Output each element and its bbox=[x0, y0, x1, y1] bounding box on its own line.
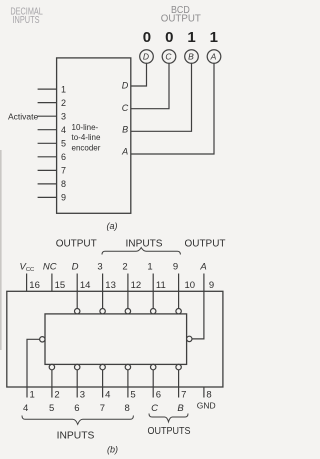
terminal A bbox=[207, 50, 221, 64]
lead pin 15 bbox=[51, 274, 53, 292]
top pin numbers 16-9 bbox=[29, 280, 214, 291]
svg-text:7: 7 bbox=[181, 390, 186, 401]
wire input 7 bbox=[38, 169, 57, 171]
wire C output bbox=[131, 63, 169, 108]
lead pin 16 bbox=[26, 274, 28, 292]
wire input 8 bbox=[38, 183, 57, 185]
pin name labels bbox=[20, 261, 207, 273]
wire A output bbox=[131, 63, 214, 154]
svg-text:1: 1 bbox=[147, 261, 152, 272]
svg-text:NC: NC bbox=[43, 261, 57, 272]
svg-text:1: 1 bbox=[187, 29, 195, 46]
svg-text:1: 1 bbox=[30, 390, 35, 401]
dot pin 6 bbox=[151, 364, 156, 369]
svg-text:2: 2 bbox=[54, 390, 59, 401]
svg-text:5: 5 bbox=[61, 139, 66, 149]
svg-text:4: 4 bbox=[61, 125, 66, 135]
dot pin 5 bbox=[125, 364, 130, 369]
label DECIMAL INPUTS bbox=[10, 7, 43, 27]
wire D output bbox=[131, 63, 147, 86]
package outline rect bbox=[7, 291, 223, 387]
bottom pin leads 2-7 bbox=[52, 370, 204, 398]
svg-text:D: D bbox=[72, 261, 79, 272]
svg-text:2: 2 bbox=[122, 261, 127, 272]
lead pin 9 (A) bbox=[192, 274, 204, 339]
terminal D bbox=[140, 50, 154, 64]
wire input 2 bbox=[38, 102, 57, 104]
svg-text:INPUTS: INPUTS bbox=[57, 430, 95, 442]
svg-text:13: 13 bbox=[105, 280, 116, 291]
lead pin 6 bbox=[152, 370, 154, 398]
lead pin 5 bbox=[127, 370, 129, 398]
svg-text:B: B bbox=[188, 52, 194, 62]
bottom pin numbers 1-8 bbox=[30, 390, 212, 401]
lead pin 7 bbox=[178, 370, 180, 398]
svg-text:3: 3 bbox=[80, 390, 85, 401]
dot pin 9 (right) bbox=[187, 336, 192, 341]
lead pin 1 bbox=[27, 339, 40, 397]
svg-text:10-line-: 10-line- bbox=[72, 123, 99, 132]
svg-text:0: 0 bbox=[143, 29, 151, 46]
wire input 9 bbox=[38, 196, 57, 198]
svg-text:B: B bbox=[122, 125, 128, 135]
svg-text:14: 14 bbox=[80, 280, 91, 291]
dot pin 13 bbox=[100, 309, 105, 314]
svg-text:OUTPUT: OUTPUT bbox=[161, 14, 201, 25]
lead pin 10 bbox=[178, 274, 180, 309]
lead pin 13 bbox=[102, 274, 104, 309]
svg-text:10: 10 bbox=[185, 280, 196, 291]
svg-text:9: 9 bbox=[61, 193, 66, 203]
svg-text:11: 11 bbox=[156, 280, 166, 291]
lead pin 3 bbox=[76, 370, 78, 398]
IC body rect bbox=[45, 314, 187, 365]
bottom function labels bbox=[23, 401, 216, 415]
svg-text:12: 12 bbox=[131, 280, 142, 291]
svg-text:6: 6 bbox=[61, 152, 66, 162]
svg-text:6: 6 bbox=[156, 390, 161, 401]
svg-text:OUTPUTS: OUTPUTS bbox=[148, 425, 191, 437]
svg-text:1: 1 bbox=[61, 84, 66, 94]
input pin labels 1-9 bbox=[61, 84, 66, 202]
svg-text:4: 4 bbox=[23, 403, 28, 414]
svg-text:A: A bbox=[210, 52, 217, 62]
svg-text:C: C bbox=[165, 52, 172, 62]
svg-text:8: 8 bbox=[206, 390, 211, 401]
svg-text:15: 15 bbox=[55, 280, 66, 291]
lead pin 12 bbox=[127, 274, 129, 309]
svg-text:9: 9 bbox=[173, 261, 178, 272]
terminal B bbox=[185, 50, 199, 64]
svg-text:A: A bbox=[199, 261, 206, 272]
output terminal circles D C B A bbox=[140, 50, 221, 64]
brace under inputs 4-8 bbox=[22, 416, 133, 425]
svg-text:C: C bbox=[122, 103, 129, 113]
svg-text:1: 1 bbox=[210, 29, 218, 46]
encoder box U1 bbox=[57, 58, 131, 213]
dot pin 1 (left) bbox=[40, 337, 45, 342]
wire input 6 bbox=[38, 156, 57, 158]
svg-text:0: 0 bbox=[165, 29, 173, 46]
svg-text:9: 9 bbox=[209, 280, 214, 291]
dot pin 4 bbox=[100, 364, 105, 369]
svg-text:to-4-line: to-4-line bbox=[72, 133, 101, 142]
dot pin 3 bbox=[75, 364, 80, 369]
dot pin 14 bbox=[75, 309, 80, 314]
brace over inputs 3 2 1 9 bbox=[102, 248, 180, 255]
svg-text:2: 2 bbox=[61, 98, 66, 108]
svg-text:7: 7 bbox=[100, 403, 105, 414]
output labels D C B A inside box bbox=[121, 81, 129, 157]
label BCD OUTPUT bbox=[161, 5, 201, 25]
scan edge artifact bbox=[0, 150, 2, 350]
dot pin 7 bbox=[176, 364, 181, 369]
wire input 4 bbox=[38, 129, 57, 131]
dot pin 11 bbox=[151, 309, 156, 314]
svg-text:7: 7 bbox=[61, 166, 66, 176]
svg-text:OUTPUT: OUTPUT bbox=[185, 238, 226, 249]
wire input 1 bbox=[38, 88, 57, 90]
svg-text:Activate: Activate bbox=[8, 111, 39, 121]
dot pin 12 bbox=[125, 309, 130, 314]
svg-text:INPUTS: INPUTS bbox=[13, 15, 40, 26]
svg-text:8: 8 bbox=[61, 179, 66, 189]
BCD digits 0 0 1 1 bbox=[143, 29, 218, 46]
input stubs 1-9 bbox=[38, 89, 57, 197]
svg-text:6: 6 bbox=[74, 403, 79, 414]
wire B output bbox=[131, 63, 192, 131]
lead pin 14 bbox=[76, 274, 78, 309]
svg-text:(b): (b) bbox=[107, 444, 118, 454]
svg-text:A: A bbox=[121, 147, 128, 157]
top pin leads bbox=[27, 274, 179, 309]
lead pin 2 bbox=[51, 370, 53, 398]
dot pin 2 bbox=[49, 364, 54, 369]
svg-text:GND: GND bbox=[197, 401, 216, 411]
svg-text:D: D bbox=[122, 81, 129, 91]
svg-text:3: 3 bbox=[97, 261, 102, 272]
wire input 5 bbox=[38, 142, 57, 144]
encoder box text bbox=[72, 123, 101, 153]
brace under outputs C B bbox=[149, 414, 188, 422]
svg-text:INPUTS: INPUTS bbox=[126, 238, 163, 249]
lead pin 4 bbox=[102, 370, 104, 398]
svg-text:3: 3 bbox=[61, 111, 66, 121]
svg-text:8: 8 bbox=[125, 403, 130, 414]
lead pin 11 bbox=[152, 274, 154, 309]
terminal C bbox=[162, 50, 176, 64]
svg-text:4: 4 bbox=[105, 390, 110, 401]
svg-text:5: 5 bbox=[130, 390, 135, 401]
svg-text:5: 5 bbox=[49, 403, 54, 414]
svg-text:B: B bbox=[177, 403, 184, 414]
svg-text:D: D bbox=[143, 52, 149, 62]
svg-text:16: 16 bbox=[29, 280, 40, 291]
svg-text:C: C bbox=[151, 403, 158, 414]
wire input 3 bbox=[38, 115, 57, 117]
dot pin 10 bbox=[176, 309, 181, 314]
svg-text:OUTPUT: OUTPUT bbox=[56, 238, 97, 249]
svg-text:encoder: encoder bbox=[72, 143, 101, 152]
top body pin dots bbox=[40, 309, 192, 370]
svg-text:(a): (a) bbox=[107, 221, 118, 231]
lead pin 8 bbox=[203, 387, 205, 398]
